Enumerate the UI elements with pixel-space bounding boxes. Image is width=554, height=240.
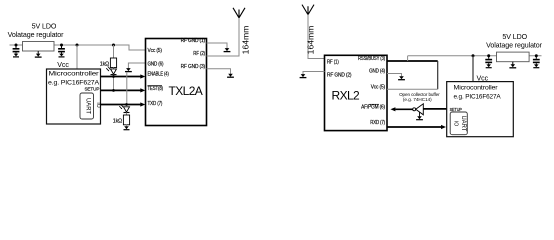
svg-text:IO: IO <box>453 121 459 126</box>
svg-text:1kΩ: 1kΩ <box>113 119 122 125</box>
svg-text:RF GND (3): RF GND (3) <box>181 64 206 70</box>
svg-text:ENABLE (4): ENABLE (4) <box>148 72 170 78</box>
svg-text:RF GND (2): RF GND (2) <box>327 73 352 79</box>
svg-text:Microcontroller: Microcontroller <box>454 84 499 91</box>
svg-text:Vcc (5): Vcc (5) <box>148 48 163 54</box>
svg-text:(e.g. 74HC14): (e.g. 74HC14) <box>403 97 432 102</box>
svg-text:RSSI/BUSY (3): RSSI/BUSY (3) <box>358 56 385 62</box>
svg-text:Microcontroller: Microcontroller <box>49 71 100 78</box>
svg-text:GND (6): GND (6) <box>148 62 164 68</box>
svg-text:UART: UART <box>460 115 466 131</box>
svg-text:IO: IO <box>95 102 101 107</box>
svg-text:164mm: 164mm <box>306 26 316 55</box>
svg-text:RF (2): RF (2) <box>193 51 205 57</box>
svg-text:5V LDO: 5V LDO <box>32 23 57 31</box>
svg-text:UART: UART <box>85 98 91 114</box>
svg-text:1kΩ: 1kΩ <box>100 61 109 67</box>
svg-text:Volatage regulator: Volatage regulator <box>486 42 543 50</box>
svg-text:SETUP: SETUP <box>84 86 99 91</box>
svg-text:RXD (7): RXD (7) <box>370 120 385 126</box>
svg-text:RXL2: RXL2 <box>332 89 361 103</box>
svg-text:RF (1): RF (1) <box>327 59 339 65</box>
svg-text:SETUP: SETUP <box>450 107 462 112</box>
svg-text:TXL2A: TXL2A <box>169 84 203 98</box>
svg-text:TXD (7): TXD (7) <box>148 101 163 107</box>
svg-text:5V LDO: 5V LDO <box>502 33 527 41</box>
svg-text:Vcc (5): Vcc (5) <box>371 84 386 90</box>
svg-text:e.g. PIC16F627A: e.g. PIC16F627A <box>454 93 502 100</box>
svg-text:Vcc: Vcc <box>477 75 489 83</box>
svg-text:164mm: 164mm <box>241 26 251 55</box>
svg-text:GND (4): GND (4) <box>369 69 385 75</box>
svg-text:Vcc: Vcc <box>57 61 69 69</box>
svg-text:Volatage regulator: Volatage regulator <box>8 31 65 39</box>
svg-text:RF GND (1): RF GND (1) <box>181 38 206 44</box>
svg-text:AF/PGM (6): AF/PGM (6) <box>361 105 385 111</box>
svg-text:TEST(8): TEST(8) <box>148 86 164 92</box>
